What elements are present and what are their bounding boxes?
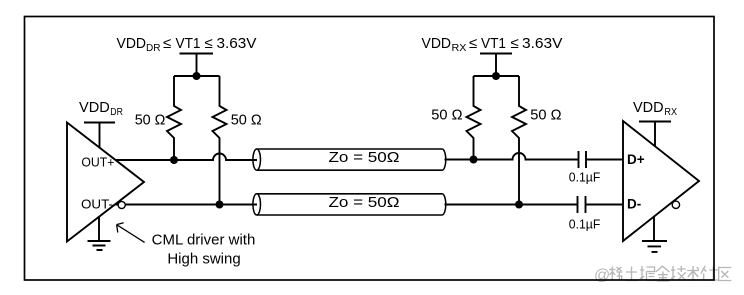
svg-text:0.1µF: 0.1µF bbox=[569, 170, 601, 185]
wire top line to C1 with hop over R4 drop bbox=[445, 153, 579, 160]
char qu bbox=[719, 268, 732, 281]
pin circle on receiver lower edge bbox=[672, 201, 679, 208]
node: left termination junction bbox=[193, 72, 201, 80]
svg-text:50 Ω: 50 Ω bbox=[135, 112, 166, 129]
wire OUT- to bottom line bbox=[115, 204, 257, 206]
ground (driver) bbox=[88, 218, 111, 251]
svg-text:50 Ω: 50 Ω bbox=[431, 107, 462, 124]
svg-text:D+: D+ bbox=[627, 152, 645, 167]
svg-text:≤: ≤ bbox=[511, 35, 519, 52]
svg-text:D-: D- bbox=[627, 197, 641, 212]
resistor R3 50 ohm (right pullup A) bbox=[467, 76, 481, 160]
op-amp U1 CML driver bbox=[67, 123, 144, 242]
svg-text:OUT+: OUT+ bbox=[81, 155, 114, 170]
svg-text:≤: ≤ bbox=[163, 35, 171, 52]
annotation arrow to driver bbox=[117, 223, 145, 243]
node: R4 to bottom line junction bbox=[515, 201, 523, 209]
wire: right termination split bbox=[474, 75, 520, 77]
wire C1 to D+ bbox=[586, 159, 623, 161]
svg-text:RX: RX bbox=[664, 107, 677, 118]
svg-text:CML driver with: CML driver with bbox=[152, 232, 256, 249]
resistor R2 50 ohm (left pullup B) bbox=[213, 76, 227, 205]
svg-text:0.1µF: 0.1µF bbox=[569, 216, 601, 231]
capacitor C1 0.1uF bbox=[579, 151, 587, 168]
char jue bbox=[640, 266, 656, 281]
svg-text:DR: DR bbox=[146, 43, 161, 54]
svg-text:@: @ bbox=[594, 267, 610, 284]
svg-text:High swing: High swing bbox=[167, 251, 240, 268]
svg-text:Zo = 50Ω: Zo = 50Ω bbox=[329, 194, 400, 211]
svg-text:50 Ω: 50 Ω bbox=[530, 107, 561, 124]
net label VDD_RX (receiver supply) bbox=[633, 99, 677, 118]
svg-text:3.63V: 3.63V bbox=[217, 35, 257, 52]
VT1 supply bar (right) bbox=[480, 54, 512, 77]
capacitor C2 0.1uF bbox=[578, 196, 586, 213]
svg-text:50 Ω: 50 Ω bbox=[231, 112, 262, 129]
node: right termination junction bbox=[492, 72, 500, 80]
char xi bbox=[609, 267, 623, 281]
net label VDD_DR <= VT1 <= 3.63V bbox=[117, 35, 257, 54]
svg-text:OUT-: OUT- bbox=[81, 197, 113, 212]
char tu bbox=[625, 267, 639, 281]
node: R3 to top line junction bbox=[470, 156, 478, 164]
wire: left termination split bbox=[174, 75, 220, 77]
wire C2 to D- bbox=[586, 204, 624, 206]
svg-text:3.63V: 3.63V bbox=[522, 35, 563, 52]
wire OUT+ to top line with hop over R2 drop bbox=[116, 154, 258, 161]
svg-text:VDD: VDD bbox=[79, 99, 110, 116]
node: R1 to OUT+ junction bbox=[170, 156, 178, 164]
pin circle OUT- (inverting output bubble) bbox=[118, 201, 125, 208]
op-amp U2 receiver bbox=[623, 121, 699, 241]
VT1 supply bar (left) bbox=[180, 54, 214, 77]
net label VDD_DR (driver supply) bbox=[79, 99, 123, 118]
transmission line T2 Zo=50ohm (bottom cylinder) bbox=[253, 194, 446, 215]
ground (receiver) bbox=[642, 217, 667, 252]
svg-text:RX: RX bbox=[452, 43, 467, 54]
char shu bbox=[687, 266, 699, 281]
char she bbox=[701, 266, 718, 281]
watermark bbox=[594, 266, 731, 284]
svg-text:VDD: VDD bbox=[117, 35, 147, 52]
svg-text:≤: ≤ bbox=[205, 35, 213, 52]
resistor R1 50 ohm (left pullup A) bbox=[167, 76, 181, 160]
char jin bbox=[656, 266, 670, 281]
char ji bbox=[671, 266, 686, 281]
net label VDD_RX <= VT1 <= 3.63V bbox=[422, 35, 563, 54]
transmission line T1 Zo=50ohm (top cylinder) bbox=[253, 149, 446, 170]
power bar VDD_RX into receiver bbox=[639, 122, 671, 147]
svg-text:≤: ≤ bbox=[469, 35, 477, 52]
svg-text:VT1: VT1 bbox=[481, 35, 506, 52]
resistor R4 50 ohm (right pullup B) bbox=[512, 76, 526, 205]
wire bottom line to C2 bbox=[445, 204, 578, 206]
svg-text:VT1: VT1 bbox=[176, 35, 201, 52]
power bar VDD_DR into driver bbox=[84, 123, 115, 149]
svg-text:VDD: VDD bbox=[633, 99, 664, 116]
svg-text:VDD: VDD bbox=[422, 35, 452, 52]
svg-text:Zo = 50Ω: Zo = 50Ω bbox=[329, 149, 400, 166]
annotation text CML driver with High swing bbox=[152, 232, 256, 268]
svg-text:DR: DR bbox=[110, 107, 123, 118]
node: R2 to OUT- junction bbox=[216, 201, 224, 209]
